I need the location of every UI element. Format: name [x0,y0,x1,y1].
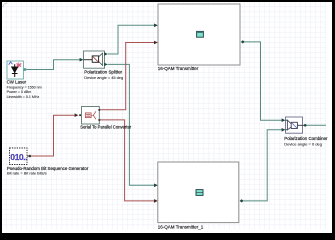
CW Laser diode symbol [11,67,19,74]
svg-text:16-QAM Transmitter: 16-QAM Transmitter [158,66,199,71]
svg-text:Polarization Splitter: Polarization Splitter [84,69,122,74]
TX2 subsystem icon [196,190,203,196]
page corner mark [3,3,8,8]
CW Laser component box [7,61,24,79]
wire PRBS to S2P input [31,115,75,156]
TX1 subsystem icon [197,31,204,37]
combiner input stems [286,119,288,121]
svg-text:Bit rate = Bit rate Bits/s: Bit rate = Bit rate Bits/s [7,171,47,176]
wire TX1 output to combiner input1 [245,42,282,120]
Polarization Splitter box [84,51,105,68]
svg-text:Device angle = 0 deg: Device angle = 0 deg [284,141,322,146]
TX1 output port [241,40,245,43]
wire splitter out2 to TX2 optical input [108,64,155,185]
16-QAM Transmitter_1 box [158,162,239,223]
CW Laser output port [24,68,27,71]
combiner output stem [297,124,304,126]
splitter output port1 [104,52,108,55]
PRBS generator box [10,148,28,165]
svg-text:Power = 0 dBm: Power = 0 dBm [7,90,32,94]
combiner funnel [287,120,291,130]
splitter funnel [99,53,103,65]
S2P output port squares [98,109,100,111]
arrowhead into TX2 input2 [154,199,158,203]
combiner output port [304,124,307,127]
splitter output port2 [104,63,108,66]
arrowhead into combiner input2 [282,128,286,132]
combiner inner square [291,122,297,128]
svg-text:Polarization Combiner: Polarization Combiner [284,136,328,141]
wire combiner output [306,124,326,126]
S2P inner icon [85,111,96,119]
TX2 output port [240,199,244,202]
splitter inner square [92,56,98,62]
CW Laser blue mark [9,62,13,65]
svg-text:010..: 010.. [10,152,27,162]
svg-text:Device angle = 45 deg: Device angle = 45 deg [84,75,123,80]
arrowhead into TX1 input2 [154,41,158,45]
Serial To Parallel Converter box [82,107,100,125]
wire S2P out1 to TX1 electrical input [100,43,154,110]
wire laser to splitter [26,60,80,70]
svg-text:Frequency = 1550 nm: Frequency = 1550 nm [7,86,42,90]
svg-text:Serial To Parallel Converter: Serial To Parallel Converter [80,124,131,129]
arrowhead into S2P input [75,113,79,117]
wire TX2 output to combiner input2 [244,130,282,201]
arrowhead into TX2 input1 [154,184,158,188]
arrowhead into splitter input [80,58,84,62]
svg-text:Linewidth = 0.1 MHz: Linewidth = 0.1 MHz [7,95,40,99]
S2P input port square [79,114,81,116]
wire S2P out2 to TX2 electrical input [100,120,154,201]
CW Laser red starburst [16,62,21,67]
splitter input stem [84,59,93,61]
wire splitter out1 to TX1 optical input [108,25,155,54]
Polarization Combiner box [286,117,303,133]
svg-text:16-QAM Transmitter_1: 16-QAM Transmitter_1 [158,224,204,229]
svg-text:CW Laser: CW Laser [7,79,27,84]
16-QAM Transmitter box [158,4,240,65]
arrowhead into TX1 input1 [154,24,158,28]
PRBS output port [27,155,29,157]
arrowhead into combiner input1 [282,118,286,122]
